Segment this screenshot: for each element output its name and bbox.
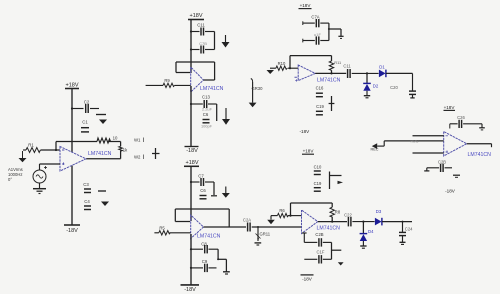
ground arrow on inverting path: [270, 216, 272, 220]
wire output stage3 to stage4: [204, 226, 247, 228]
wire output stage6: [467, 143, 492, 145]
wire right vertical + ground step: [218, 249, 226, 271]
ground stub left: [426, 168, 428, 171]
diode D2 shunt: [366, 73, 368, 83]
svg-text:C20: C20: [390, 85, 398, 90]
ground stub right of C26: [481, 124, 483, 128]
svg-text:C6: C6: [200, 188, 206, 193]
svg-text:2.2uF: 2.2uF: [202, 107, 213, 112]
diode D3 series: [375, 218, 382, 226]
capacitor C24 shunt: [402, 222, 404, 232]
svg-text:+18V: +18V: [303, 149, 315, 154]
svg-text:-18V: -18V: [186, 148, 198, 154]
ground (bar+arrow) right of C2: [96, 114, 106, 116]
svg-text:C9: C9: [202, 259, 208, 264]
svg-text:C7A: C7A: [311, 15, 319, 20]
svg-text:LM741CN: LM741CN: [468, 152, 492, 158]
svg-text:R9: R9: [164, 78, 170, 83]
svg-text:W1: W1: [134, 138, 141, 143]
svg-text:C1F: C1F: [317, 250, 325, 255]
wire input A: [413, 135, 444, 137]
svg-text:-18V: -18V: [66, 228, 78, 234]
op-amp U1: [60, 147, 86, 172]
svg-text:C10: C10: [314, 164, 322, 169]
svg-text:+18V: +18V: [300, 3, 312, 8]
svg-text:C19: C19: [316, 104, 324, 109]
node cross marker: [152, 148, 160, 159]
node cross marker stage4: [330, 172, 342, 190]
svg-text:R5: R5: [159, 226, 165, 231]
op-amp U6: [444, 132, 467, 157]
svg-text:LM741CN: LM741CN: [88, 151, 112, 157]
source V1: [33, 170, 46, 183]
svg-text:D1: D1: [379, 65, 385, 70]
svg-text:C26: C26: [457, 115, 465, 120]
svg-text:C13: C13: [202, 95, 210, 100]
svg-text:C2B: C2B: [315, 232, 323, 237]
wire: [216, 104, 218, 121]
svg-text:R6: R6: [279, 208, 285, 213]
wire V- rail stage3: [190, 234, 192, 285]
diode D4 shunt: [362, 222, 364, 234]
svg-text:C4: C4: [84, 199, 90, 204]
wire right vertical + stub: [332, 242, 342, 259]
svg-text:C11: C11: [197, 23, 205, 28]
svg-text:R11: R11: [334, 60, 341, 65]
resistor R7 (feedback, horizontal): [97, 138, 111, 143]
wire cap box right: [214, 32, 216, 50]
ground arrow: [225, 108, 227, 119]
svg-text:+18V: +18V: [66, 83, 79, 89]
connector GR30 to ground: [251, 79, 253, 103]
svg-text:LM741CN: LM741CN: [197, 234, 221, 240]
op-amp U3: [191, 215, 204, 239]
ground: [223, 271, 230, 273]
capacitor C20 shunt: [412, 73, 414, 90]
svg-text:D2: D2: [373, 84, 379, 89]
feedback box wire stage3: [175, 209, 229, 227]
svg-text:0°: 0°: [8, 177, 12, 182]
svg-text:100pF: 100pF: [201, 124, 213, 129]
svg-text:-18V: -18V: [184, 287, 196, 293]
wire output stage5: [315, 72, 346, 74]
svg-text:+18V: +18V: [444, 105, 456, 110]
resistor R2 (feedback, vertical small): [119, 146, 123, 151]
svg-text:u1F: u1F: [314, 32, 321, 37]
ground under source: [33, 183, 46, 194]
ground dash right: [453, 174, 460, 176]
svg-text:C7: C7: [198, 174, 204, 179]
svg-text:C24: C24: [405, 227, 413, 232]
ground arrow: [225, 187, 227, 194]
wire V- rail: [71, 166, 73, 226]
feedback box wire stage1: [56, 142, 121, 159]
node cross marker stage5: [329, 96, 335, 111]
ground arrow: [225, 35, 227, 42]
capacitor C2 bypass branch: [72, 104, 99, 113]
wire + input from source: [40, 163, 61, 165]
wire input C: [413, 152, 444, 154]
svg-text:LM741CN: LM741CN: [317, 77, 341, 83]
op-amp U2: [191, 67, 204, 92]
svg-text:LM741CN: LM741CN: [317, 226, 341, 232]
svg-text:D3: D3: [376, 209, 382, 214]
resistor R8 (feedback vertical): [330, 207, 334, 217]
power -18V end stage2: [185, 146, 199, 148]
op-amp U4: [302, 210, 318, 234]
svg-text:10: 10: [113, 136, 118, 141]
svg-text:C3: C3: [83, 182, 89, 187]
svg-text:D4: D4: [368, 229, 374, 234]
feedback box wire stage5: [290, 56, 332, 74]
ground bar right of C3: [98, 190, 106, 192]
wire input B (long from left): [384, 140, 444, 142]
svg-text:R8: R8: [335, 210, 341, 215]
svg-text:R1: R1: [28, 143, 34, 148]
resistor R11 feedback vertical: [329, 61, 333, 70]
wire V+ rail: [190, 20, 192, 74]
wire output stage2: [204, 79, 215, 81]
ground triangle: [338, 262, 344, 265]
wire stub to ground: [213, 182, 215, 195]
svg-text:C2B: C2B: [438, 160, 446, 165]
wire V+ rail stage3: [190, 166, 192, 221]
svg-text:R2C: R2C: [411, 138, 419, 143]
svg-text:C11: C11: [343, 63, 351, 68]
svg-text:GR11: GR11: [260, 232, 271, 237]
ground arrow at R10 left: [267, 70, 275, 74]
svg-text:C19: C19: [314, 181, 322, 186]
svg-text:GR30: GR30: [252, 86, 264, 91]
svg-text:LM741CN: LM741CN: [200, 86, 224, 92]
svg-text:C6: C6: [203, 112, 209, 117]
ground arrow small right: [338, 181, 344, 184]
wire output stage4: [318, 221, 347, 223]
power -18V bottom: [64, 224, 80, 226]
svg-text:C7B: C7B: [199, 41, 207, 46]
feedback box wire stage4: [291, 203, 333, 222]
feedback box wire stage2: [176, 62, 215, 80]
power -18V bottom stage3: [181, 284, 200, 286]
svg-text:C16: C16: [316, 86, 324, 91]
ground arrow right of C4: [101, 202, 109, 207]
ground arrow at R1 left: [22, 151, 24, 158]
svg-text:-18V: -18V: [445, 189, 456, 194]
svg-text:C1: C1: [82, 120, 88, 125]
diode D1 series: [379, 70, 386, 78]
svg-text:+18V: +18V: [186, 160, 199, 166]
wire V- rail stage2: [190, 86, 192, 146]
svg-text:C2A: C2A: [243, 218, 251, 223]
wire after D1: [386, 72, 413, 74]
wire after D3: [382, 221, 412, 223]
svg-text:REC: REC: [371, 148, 379, 152]
svg-text:+18V: +18V: [190, 13, 203, 19]
svg-text:-18V: -18V: [302, 277, 313, 282]
svg-text:-18V: -18V: [300, 129, 311, 134]
svg-text:C2: C2: [84, 100, 90, 105]
svg-text:W2: W2: [134, 155, 141, 160]
connector REC arrow: [372, 143, 377, 149]
op-amp U5: [295, 65, 316, 82]
svg-text:1k: 1k: [123, 148, 128, 153]
wire V+ rail: [71, 89, 73, 153]
power -18V stage4: [301, 274, 314, 276]
svg-text:C22: C22: [344, 213, 352, 218]
wire cap box right + ground stub: [329, 23, 341, 40]
power +18V rail top: [65, 88, 79, 90]
